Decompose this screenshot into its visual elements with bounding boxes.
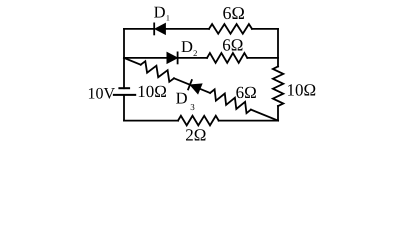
svg-text:D: D bbox=[154, 2, 166, 21]
wire left vertical (top corner to battery) bbox=[123, 29, 125, 88]
svg-text:10V: 10V bbox=[88, 85, 116, 102]
resistor 2 ohm (bottom) bbox=[178, 116, 219, 126]
wire right vertical bottom segment bbox=[277, 106, 279, 121]
wire diagonal 6-ohm to bottom-right corner bbox=[251, 110, 278, 121]
wire 2-ohm to bottom-right corner bbox=[219, 120, 278, 122]
resistor 10 ohm (diagonal) bbox=[141, 61, 174, 82]
label 10 ohm (right) bbox=[287, 81, 317, 100]
wire D1 to top 6-ohm resistor bbox=[165, 28, 209, 30]
svg-text:D: D bbox=[181, 37, 193, 56]
label 6 ohm (middle) bbox=[222, 36, 243, 55]
wire middle row: left node to D2 bbox=[124, 57, 167, 59]
svg-text:1: 1 bbox=[166, 13, 170, 22]
diode D2 bbox=[167, 52, 178, 63]
svg-text:D: D bbox=[176, 88, 188, 107]
wire battery to bottom-left corner bbox=[123, 95, 125, 121]
label 6 ohm (top) bbox=[223, 3, 245, 23]
resistor 6 ohm (top row) bbox=[209, 24, 252, 34]
label 6 ohm (diagonal) bbox=[236, 83, 257, 102]
svg-text:2: 2 bbox=[193, 48, 197, 58]
label D1 bbox=[154, 2, 170, 22]
svg-text:6Ω: 6Ω bbox=[223, 3, 245, 23]
svg-text:6Ω: 6Ω bbox=[222, 36, 243, 55]
resistor 10 ohm (right vertical) bbox=[273, 67, 283, 107]
label 2 ohm bbox=[185, 126, 206, 145]
resistor 6 ohm (diagonal) bbox=[210, 89, 251, 113]
label 10 ohm (diagonal) bbox=[137, 82, 167, 101]
svg-text:3: 3 bbox=[190, 102, 195, 112]
wire middle 6-ohm to right vertical bbox=[247, 57, 278, 59]
wire 10-ohm zigzag to D3 bbox=[174, 78, 190, 84]
diode D1 bbox=[154, 23, 165, 34]
svg-text:2Ω: 2Ω bbox=[185, 126, 206, 145]
diode D3 bbox=[188, 80, 202, 94]
battery 10V bbox=[114, 88, 135, 95]
label D3 bbox=[176, 88, 196, 112]
wire D2 to middle 6-ohm resistor bbox=[178, 57, 207, 59]
wire top 6-ohm to top-right corner bbox=[252, 28, 278, 30]
svg-text:10Ω: 10Ω bbox=[137, 82, 167, 101]
svg-text:6Ω: 6Ω bbox=[236, 83, 257, 102]
wire right vertical top segment bbox=[277, 29, 279, 67]
label 10V bbox=[88, 85, 116, 102]
wire bottom-left to 2-ohm resistor bbox=[124, 120, 178, 122]
resistor 6 ohm (middle row) bbox=[207, 53, 247, 63]
wire D3 to diagonal 6-ohm bbox=[200, 89, 210, 93]
svg-text:10Ω: 10Ω bbox=[287, 81, 317, 100]
wire diagonal: left node to 10-ohm zigzag bbox=[124, 58, 141, 65]
wire top-left to D1 (top row) bbox=[124, 28, 154, 30]
label D2 bbox=[181, 37, 197, 58]
